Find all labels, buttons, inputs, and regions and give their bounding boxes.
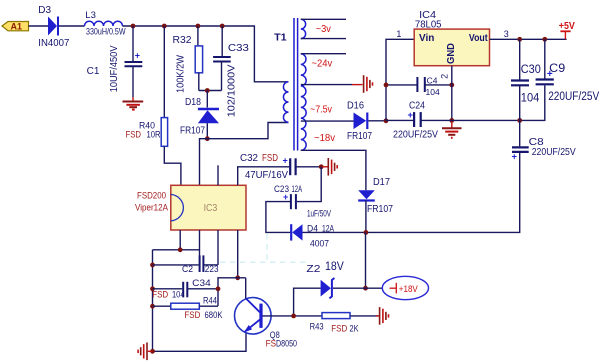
capacitor C33 bbox=[213, 26, 249, 117]
svg-text:223: 223 bbox=[205, 264, 219, 275]
svg-text:C2: C2 bbox=[182, 264, 193, 275]
node R32 branch bbox=[196, 24, 201, 29]
capacitor C9 bbox=[536, 39, 600, 103]
node C30 top bbox=[517, 37, 522, 42]
node pin8 junction bbox=[235, 275, 240, 280]
zener Z2 bbox=[306, 259, 365, 298]
node Z2 cathode bbox=[363, 286, 368, 291]
svg-text:R43: R43 bbox=[310, 321, 324, 332]
node R32/C33/D18 junction bbox=[205, 88, 210, 93]
resistor R32 bbox=[173, 35, 203, 93]
capacitor C23 bbox=[274, 184, 331, 220]
ground (earth) under C1 bbox=[123, 97, 144, 110]
svg-text:Z2: Z2 bbox=[306, 263, 320, 275]
wire D3 to L3 bbox=[59, 25, 85, 27]
transistor Q8 bbox=[235, 298, 298, 350]
capacitor C4 bbox=[386, 76, 452, 98]
wire IC3 pin4 to C32 bbox=[238, 167, 290, 186]
svg-text:FSD: FSD bbox=[184, 310, 200, 321]
svg-text:1uF/50V: 1uF/50V bbox=[307, 209, 331, 220]
svg-text:+: + bbox=[512, 152, 518, 163]
T1 primary winding bbox=[283, 82, 288, 123]
diode D4 bbox=[291, 224, 334, 250]
wire riser to IC4 pin1 bbox=[386, 39, 414, 121]
node D16 junction bbox=[384, 118, 389, 123]
svg-text:FSD: FSD bbox=[262, 153, 278, 164]
wire IC4 pin3 to +5V bbox=[490, 38, 567, 40]
wire IC4 GND pin down bbox=[451, 66, 453, 121]
svg-text:FR107: FR107 bbox=[367, 204, 393, 215]
wire rail to R32 bbox=[197, 26, 199, 46]
node C33 branch bbox=[220, 24, 225, 29]
T1 secondary winding 2 with taps bbox=[301, 54, 366, 191]
wire A1 to D3 bbox=[29, 25, 49, 27]
svg-text:104: 104 bbox=[172, 289, 185, 300]
ground right of R43 bbox=[376, 307, 389, 325]
capacitor C30 bbox=[511, 39, 541, 146]
svg-text:C23: C23 bbox=[274, 184, 289, 195]
svg-text:C33: C33 bbox=[228, 43, 249, 54]
resistor R44 bbox=[153, 296, 224, 321]
svg-text:C34: C34 bbox=[192, 278, 211, 289]
svg-text:10R: 10R bbox=[147, 130, 161, 141]
svg-text:4007: 4007 bbox=[310, 239, 329, 250]
ground right of C32 bbox=[321, 158, 337, 176]
wire R40 to IC3 pin bbox=[164, 146, 181, 185]
svg-text:FSD: FSD bbox=[331, 324, 347, 335]
capacitor C24 bbox=[386, 101, 438, 141]
svg-text:10UF/450V: 10UF/450V bbox=[109, 45, 120, 92]
svg-text:D16: D16 bbox=[347, 101, 364, 112]
svg-text:IC3: IC3 bbox=[204, 203, 218, 214]
diode D16 bbox=[347, 101, 372, 143]
IC3 pin7 wire bbox=[217, 230, 219, 265]
svg-text:FSD: FSD bbox=[126, 130, 142, 141]
svg-text:D18: D18 bbox=[185, 97, 201, 108]
svg-text:~18v: ~18v bbox=[314, 133, 335, 144]
svg-text:T1: T1 bbox=[274, 32, 287, 44]
node C34 junction bbox=[216, 286, 221, 291]
node R40 branch bbox=[162, 24, 167, 29]
diode D3 bbox=[38, 5, 69, 49]
capacitor C1 bbox=[87, 26, 143, 97]
svg-text:FSD: FSD bbox=[152, 289, 168, 300]
node C9 top bbox=[542, 37, 547, 42]
svg-text:Vout: Vout bbox=[469, 33, 488, 44]
svg-text:IN4007: IN4007 bbox=[38, 38, 69, 49]
wire rail to Z2 node bbox=[365, 232, 367, 288]
node output rail junction bbox=[364, 230, 369, 235]
capacitor C32 bbox=[240, 153, 296, 181]
svg-text:78L05: 78L05 bbox=[415, 20, 442, 31]
svg-text:100K/2W: 100K/2W bbox=[176, 54, 187, 93]
svg-text:C32: C32 bbox=[240, 153, 258, 164]
svg-text:+: + bbox=[283, 155, 288, 165]
svg-text:C4: C4 bbox=[427, 76, 438, 86]
wire R43 to ground bbox=[350, 315, 379, 317]
diode D18 bbox=[180, 91, 219, 137]
node base junction bbox=[291, 314, 296, 319]
svg-text:220UF/25V: 220UF/25V bbox=[532, 146, 576, 158]
T1 secondary winding 1 bbox=[301, 19, 346, 38]
svg-text:~7.5v: ~7.5v bbox=[310, 105, 332, 116]
capacitor C2 bbox=[153, 255, 219, 275]
wire C23 left to D4 bbox=[266, 202, 291, 233]
resistor R40 bbox=[126, 118, 168, 147]
wire drain rail to IC3 pin2 bbox=[200, 123, 289, 186]
svg-text:A1: A1 bbox=[11, 21, 23, 31]
svg-text:C30: C30 bbox=[521, 64, 541, 76]
transformer T1 bbox=[274, 18, 298, 151]
wire C32 node down to C23 bbox=[297, 167, 321, 202]
svg-text:102/1000V: 102/1000V bbox=[227, 64, 238, 117]
node C4 left tap bbox=[384, 83, 389, 88]
svg-text:2K: 2K bbox=[350, 324, 360, 335]
power +18V output oval bbox=[366, 276, 429, 299]
svg-text:FR107: FR107 bbox=[180, 126, 205, 137]
wire D18 to drain rail bbox=[206, 123, 208, 139]
ground (earth) under IC4 bbox=[442, 120, 462, 137]
svg-text:GND: GND bbox=[446, 43, 457, 64]
capacitor C8 bbox=[512, 136, 576, 163]
svg-text:R44: R44 bbox=[203, 296, 217, 307]
node rail R44 bbox=[150, 304, 155, 309]
svg-text:1: 1 bbox=[396, 29, 401, 39]
svg-text:R32: R32 bbox=[173, 35, 192, 46]
IC3 pin6 wire bbox=[199, 230, 201, 256]
resistor R43 bbox=[310, 313, 359, 335]
svg-text:~24v: ~24v bbox=[312, 59, 333, 70]
wire pin8 net bbox=[218, 278, 246, 306]
svg-text:FSD200: FSD200 bbox=[137, 190, 166, 200]
svg-text:47UF/16V: 47UF/16V bbox=[245, 170, 288, 181]
op-amp IC4 regulator 78L05 bbox=[414, 10, 489, 66]
wire Q8 emitter bbox=[153, 334, 247, 352]
node C30 bottom junction bbox=[517, 118, 522, 123]
IC3 VIPer12A bbox=[171, 185, 246, 230]
svg-text:FR107: FR107 bbox=[347, 131, 372, 142]
wire top rail bbox=[123, 26, 289, 82]
IC3 pin8 wire bbox=[237, 230, 239, 278]
svg-text:+: + bbox=[135, 50, 140, 60]
svg-text:18V: 18V bbox=[325, 259, 344, 273]
wire D4 to output rail bbox=[303, 231, 366, 233]
svg-text:104: 104 bbox=[521, 92, 540, 104]
svg-text:220UF/25V: 220UF/25V bbox=[393, 129, 438, 141]
svg-text:680K: 680K bbox=[205, 310, 224, 321]
svg-text:C1: C1 bbox=[87, 66, 100, 77]
svg-text:Vin: Vin bbox=[419, 33, 434, 44]
highlighted net (dashed) bbox=[220, 234, 307, 262]
svg-text:12A: 12A bbox=[292, 184, 303, 195]
svg-text:C24: C24 bbox=[409, 101, 425, 112]
wire D17 to rail bbox=[365, 201, 367, 233]
power +5V bbox=[559, 21, 575, 39]
ground (tap) on secondary bbox=[352, 75, 373, 93]
node rail ground bbox=[150, 349, 155, 354]
wire left rail bbox=[152, 250, 154, 351]
diode D17 bbox=[358, 177, 393, 215]
svg-text:D8050: D8050 bbox=[276, 338, 297, 349]
wire Q8 collector bbox=[245, 278, 247, 299]
wire Z2 anode to base node bbox=[294, 288, 321, 316]
svg-text:Viper12A: Viper12A bbox=[135, 202, 168, 212]
wire R32 bottom / snubber bus bbox=[199, 73, 222, 91]
node pin5 junction bbox=[178, 247, 183, 252]
IC3 top stub pin bbox=[217, 165, 219, 185]
ground bottom left bbox=[138, 343, 152, 361]
svg-text:~3v: ~3v bbox=[316, 24, 331, 35]
svg-text:L3: L3 bbox=[85, 10, 96, 21]
svg-text:D17: D17 bbox=[373, 177, 390, 188]
svg-text:2: 2 bbox=[440, 74, 450, 79]
wire D16 to C24 rail bbox=[368, 120, 386, 122]
svg-text:330uH/0.5W: 330uH/0.5W bbox=[86, 27, 126, 37]
node C4/GND pin bbox=[449, 83, 454, 88]
node C32 right bbox=[319, 164, 324, 169]
node GND rail junction bbox=[449, 118, 454, 123]
node rail C2 bbox=[150, 263, 155, 268]
node L3/C1 junction bbox=[131, 24, 136, 29]
svg-text:3: 3 bbox=[504, 29, 509, 39]
inductor L3 bbox=[85, 10, 126, 37]
capacitor C34 bbox=[152, 278, 218, 300]
node drain junction bbox=[205, 136, 210, 141]
wire C8 to output rail bbox=[366, 152, 520, 233]
svg-text:D3: D3 bbox=[38, 5, 51, 16]
wire C32 to ground junction bbox=[296, 166, 322, 168]
wire rail to R40 bbox=[163, 26, 165, 118]
svg-text:C9: C9 bbox=[549, 63, 565, 75]
node rail C34 bbox=[150, 286, 155, 291]
svg-text:FS: FS bbox=[266, 338, 276, 349]
svg-text:+18V: +18V bbox=[399, 284, 419, 295]
connector A1 bbox=[2, 21, 29, 31]
IC3 pin5 wire bbox=[153, 230, 181, 250]
wire Q8 base to R43 bbox=[263, 315, 323, 317]
wire ground rail right bbox=[421, 85, 545, 120]
svg-text:104: 104 bbox=[426, 87, 440, 97]
svg-text:220UF/25V: 220UF/25V bbox=[548, 91, 599, 103]
